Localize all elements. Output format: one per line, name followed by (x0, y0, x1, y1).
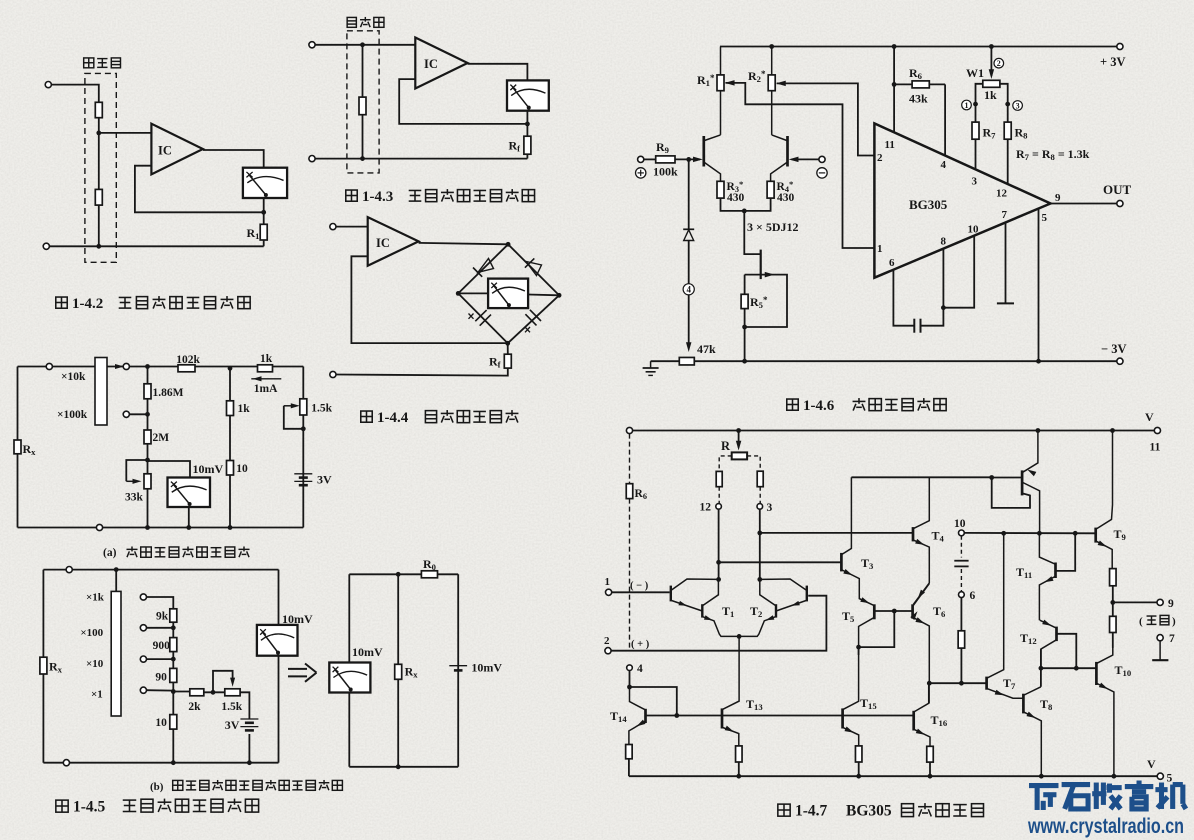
resistor divider lower (95, 189, 102, 205)
node R2 top (769, 44, 774, 49)
wire pin3 line (759, 509, 761, 579)
wire output pin9 (1051, 203, 1117, 205)
wire T5 base out (875, 610, 912, 612)
meter M (488, 279, 528, 309)
terminal -3V (1117, 358, 1123, 364)
svg-text:4: 4 (686, 285, 691, 295)
bridge top-right arm (508, 244, 559, 295)
node tail (737, 634, 742, 639)
wire outer rect right bottom (278, 656, 280, 763)
svg-text:10: 10 (236, 463, 248, 475)
figure 1-4.6 amplifier (636, 43, 1132, 375)
wire eq Rx vertical (397, 574, 399, 767)
terminal pin12 (716, 504, 722, 510)
figure 1-4.2 DC voltmeter (43, 58, 287, 262)
arrow R2 wiper (776, 81, 786, 86)
node T1 collectors (716, 577, 721, 582)
terminal pin11 V+ (1154, 427, 1160, 433)
terminal tap1 (140, 594, 146, 600)
svg-text:BG305: BG305 (846, 803, 892, 820)
svg-text:2: 2 (997, 59, 1001, 68)
wire T9 res to node (1112, 586, 1114, 603)
svg-text:4: 4 (941, 159, 947, 171)
wire 1.5k wiper loop (b) (213, 671, 233, 693)
diode D2 on top-right arm (525, 258, 542, 275)
dashed to pin12 (718, 487, 720, 504)
battery 3V (b) (240, 718, 258, 720)
node 668 net (1039, 666, 1044, 671)
node R5 bottom (742, 325, 747, 330)
terminal minus input (819, 156, 825, 162)
svg-text:430: 430 (777, 192, 795, 204)
node 2k-1.5k (211, 690, 216, 695)
wire eq rect left upper (348, 574, 350, 662)
wire pin5 (1038, 209, 1040, 362)
wire T3 base (719, 561, 841, 563)
wire R6 leads (894, 83, 912, 85)
wire divider bottom (98, 205, 100, 246)
wire eq rect bottom (349, 766, 458, 768)
svg-text:IC: IC (376, 236, 390, 250)
svg-text:( + ): ( + ) (631, 639, 650, 650)
svg-text:www.crystalradio.cn: www.crystalradio.cn (1027, 815, 1184, 838)
wire R9 to base (675, 158, 700, 160)
node T15 rail (856, 774, 861, 779)
resistor divider upper (95, 102, 102, 117)
caption glyphs 直流电流表原理图 (409, 190, 422, 201)
x mark C2 (525, 327, 530, 332)
wire eq rect right (457, 574, 459, 767)
node T2 collectors (757, 577, 762, 582)
resistor Rx (b) (40, 657, 47, 674)
node emitter join (742, 209, 747, 214)
node pin8-10 join (941, 305, 946, 310)
node tap3 (171, 657, 176, 662)
node divider tap (96, 131, 101, 136)
resistor 10 vertical (227, 461, 234, 476)
wire outer rect top (43, 569, 278, 571)
wire bottom rail 4.7 (629, 775, 1157, 777)
selector switch bar (b) (111, 591, 121, 716)
node shunt top (360, 42, 365, 47)
implies arrow (288, 664, 317, 682)
svg-text:×100: ×100 (80, 627, 103, 639)
meter M (243, 168, 287, 198)
resistor T13 emitter (736, 746, 743, 762)
node feedback junction (525, 122, 530, 127)
node R9 junction (686, 157, 691, 162)
svg-text:10mV: 10mV (193, 462, 224, 476)
resistor T14 emitter (626, 745, 633, 759)
arrow 33k wiper (126, 480, 137, 482)
wire 1.5k wiper loop (284, 406, 304, 429)
wire minus to base (792, 158, 819, 160)
wire R8 leads (1007, 104, 1009, 122)
node T5 collector (856, 645, 861, 650)
node R7 top (973, 102, 978, 107)
svg-text:(: ( (1139, 616, 1143, 628)
node bridge left (456, 291, 461, 296)
wire tap2 (147, 627, 174, 629)
circled 4 (683, 284, 694, 295)
resistor 9k (170, 609, 177, 622)
wire opamp output (203, 150, 264, 168)
svg-text:BG305: BG305 (909, 197, 948, 212)
wire T5 to T15 (858, 647, 860, 655)
FET2 emitter (771, 163, 787, 182)
node T7 top (1001, 531, 1006, 536)
capacitor comp (914, 319, 920, 333)
pin7 ground (1152, 641, 1168, 660)
circled 2 (994, 58, 1004, 68)
transistor T14 (629, 687, 646, 745)
svg-text:11: 11 (885, 139, 895, 151)
wire pin6 cap (893, 270, 914, 326)
resistor R9 (656, 156, 675, 163)
wire 2k to 1.5k (204, 691, 225, 693)
resistor T9 emitter (1110, 569, 1117, 586)
caption glyph 图 (1-4.5) (56, 800, 68, 812)
node feedback junction (261, 210, 266, 215)
transistor T11 (1039, 533, 1055, 620)
transistor T2a (760, 579, 807, 611)
FET2 collector (772, 135, 787, 141)
wire R1 wiper to pin1 (726, 83, 875, 248)
transistor T4 (913, 477, 929, 604)
wire selector stem (115, 570, 117, 592)
wire T11 base (1056, 533, 1075, 571)
svg-text:1-4.6: 1-4.6 (803, 398, 835, 414)
resistor T16 emitter (927, 746, 934, 762)
node R5 rail (742, 359, 747, 364)
caption glyphs 放大器线路图 (853, 398, 866, 410)
node T6 emitter horizontal (927, 681, 932, 686)
wire R5 box left edges (744, 275, 746, 295)
node battery bottom (247, 760, 252, 765)
svg-text:10: 10 (968, 224, 980, 236)
svg-text:5: 5 (1042, 212, 1048, 224)
node 1.5k bottom (301, 426, 306, 431)
wire emitters join (721, 198, 771, 211)
wire 9k-900 (172, 622, 174, 637)
wire pin12 line (718, 509, 720, 579)
wire 10 to rail (172, 729, 174, 763)
wire bridge bottom to Rf (507, 343, 509, 354)
svg-text:10mV: 10mV (471, 661, 502, 675)
op-amp IC (368, 217, 419, 266)
capacitor 6-10 (954, 561, 968, 567)
node pin5 rail (1036, 359, 1041, 364)
terminal top-left (46, 363, 52, 369)
wire base bus (647, 715, 914, 717)
dashed R right leg (747, 456, 760, 471)
voltage divider dashed box (85, 73, 116, 262)
svg-text:1-4.7: 1-4.7 (795, 803, 828, 820)
caption glyph 图 (1-4.2) (56, 297, 67, 308)
svg-text:8: 8 (941, 236, 947, 248)
wire tap3 (147, 658, 174, 660)
wire right edge (302, 367, 304, 528)
terminal +3V (1117, 43, 1123, 49)
svg-text:1: 1 (877, 243, 883, 255)
wire shunt (362, 45, 364, 159)
svg-text:3 × 5DJ12: 3 × 5DJ12 (747, 220, 799, 234)
terminal pin9 (1157, 599, 1163, 605)
dashed R left leg (719, 456, 732, 472)
wire outer rect bottom (43, 762, 278, 764)
node meter bottom (186, 525, 191, 530)
wire T15 res to rail (858, 762, 860, 776)
op-amp BG305 triangle (874, 123, 1050, 277)
svg-text:1-4.3: 1-4.3 (362, 189, 393, 205)
node T9 rail (1110, 428, 1115, 433)
wire input1 (612, 591, 670, 593)
terminal pin7 (1157, 635, 1163, 641)
dashed cap to pin6 (960, 569, 962, 592)
wire pin4 (944, 84, 946, 155)
transistor T2b (739, 579, 776, 636)
node R8 top (1005, 102, 1010, 107)
caption glyph 图 (1-4.3) (346, 190, 357, 201)
wire bottom rail (18, 527, 304, 529)
svg-text:47k: 47k (697, 342, 716, 356)
svg-text:(b): (b) (150, 781, 164, 793)
wire outer rect left (42, 570, 44, 763)
wire left node to meter (458, 292, 488, 294)
circled plus (636, 168, 646, 178)
svg-text:V: V (1147, 757, 1156, 771)
wire pin4 to T14 (629, 671, 631, 688)
selector switch bar (95, 358, 107, 426)
caption glyphs 低电压电阻档原理图及等效电路 (173, 780, 183, 790)
shunt dashed box (347, 31, 379, 173)
circled minus (817, 168, 827, 178)
wire eq rect left lower (348, 693, 350, 767)
wire mid tap (129, 413, 147, 415)
op-amp IC (415, 38, 467, 89)
svg-text:1.86M: 1.86M (153, 387, 184, 399)
wire eq rect top (349, 573, 458, 575)
transistor T9 (1096, 431, 1113, 569)
resistor 90 (170, 668, 177, 682)
svg-text:OUT: OUT (1103, 182, 1132, 197)
node pin12-T3 (716, 560, 721, 565)
wire W1 left lead (976, 84, 983, 104)
transistor FET1 bar (702, 136, 705, 167)
ground symbol (643, 361, 659, 375)
svg-text:2M: 2M (153, 432, 170, 444)
svg-text:− 3V: − 3V (1101, 342, 1127, 356)
svg-text:×10k: ×10k (61, 371, 86, 383)
svg-text:IC: IC (424, 57, 438, 71)
figure 1-4.5b ohmmeter low range (40, 567, 313, 766)
transistor T16 (914, 683, 930, 746)
resistor 2k (190, 689, 204, 696)
meter M (a) (168, 478, 211, 508)
wire feedback (135, 166, 264, 213)
svg-text:7: 7 (1002, 209, 1008, 221)
wire pin6 res to bus (960, 648, 962, 683)
figure 1-4.4 AC meter (330, 217, 562, 378)
wire divider lower (98, 133, 100, 190)
wire 1k-10 vertical (229, 368, 231, 527)
wire collector bus 683 (929, 682, 986, 684)
resistor Rx (14, 440, 21, 454)
resistor R0 (421, 571, 437, 578)
Tx base box (992, 478, 1030, 508)
transistor Tx mirror (1022, 431, 1040, 534)
resistor 1k horizontal (258, 365, 273, 372)
wire tap1 (147, 597, 174, 609)
wire W1 wiper (990, 47, 992, 77)
svg-text:12: 12 (700, 502, 712, 514)
pot R (732, 452, 747, 459)
wire R2 wiper to pin2 (777, 83, 875, 155)
wire tap4 (147, 689, 174, 691)
terminal input+ (309, 42, 315, 48)
svg-text:43k: 43k (909, 92, 928, 106)
transistor T12 (1040, 620, 1057, 668)
terminal input- (43, 243, 49, 249)
wire Rf to bottom (526, 154, 528, 158)
terminal pin3 (757, 504, 763, 510)
wire Tx base (992, 477, 1021, 479)
pot 33k (144, 474, 151, 489)
transistor T6 (910, 584, 929, 684)
wire input top (315, 44, 415, 46)
terminal OUT (1117, 200, 1123, 206)
pot W1 (983, 80, 1000, 87)
svg-text:6: 6 (970, 590, 976, 602)
terminal bottom (b) (63, 760, 69, 766)
wire T14 tie (630, 687, 677, 716)
pin7 T-bar (997, 302, 1014, 304)
wire top rail (18, 366, 304, 368)
caption glyph 图 (1-4.7) (778, 804, 790, 816)
R5 box (745, 272, 787, 327)
terminal pin5 (1157, 773, 1163, 779)
node shunt bottom (360, 156, 365, 161)
svg-text:×1: ×1 (91, 689, 103, 701)
transistor T7 (987, 533, 1023, 698)
node tap2 (171, 625, 176, 630)
svg-text:1-4.5: 1-4.5 (73, 799, 106, 816)
wire diode branch (688, 159, 690, 229)
resistor output lower (1110, 616, 1117, 632)
caption glyph 图 (1-4.6) (787, 399, 798, 410)
node T16 rail (928, 774, 933, 779)
node output (1110, 600, 1115, 605)
svg-text:×100k: ×100k (57, 409, 88, 421)
wire T16 res to rail (929, 762, 931, 776)
svg-text:( − ): ( − ) (630, 581, 649, 592)
svg-text:102k: 102k (176, 354, 200, 366)
wire R5 to rail (744, 327, 746, 361)
svg-text:11: 11 (1150, 442, 1161, 454)
resistor 102k (178, 365, 195, 372)
svg-text:1: 1 (965, 101, 969, 110)
terminal V+ left (626, 427, 632, 433)
resistor R4* (767, 181, 774, 198)
wire opamp output (468, 64, 528, 81)
arrow R1 wiper (725, 80, 735, 85)
wire R9 left (644, 158, 656, 160)
node divider bottom (96, 244, 101, 249)
diode D (683, 229, 694, 240)
wire 2M leads (147, 414, 149, 430)
terminal tap3 (140, 656, 146, 662)
pot 1.5k (300, 399, 307, 415)
node tap4 (171, 689, 176, 694)
diode D1 on top-left arm (473, 259, 494, 277)
wire tap4 to 2k (173, 691, 190, 693)
wire opamp output to bridge (419, 243, 509, 244)
node bottom 33k (145, 525, 150, 530)
svg-text:9k: 9k (156, 611, 169, 623)
resistor right leg (757, 471, 763, 487)
wire outer rect right top (278, 570, 280, 625)
FET1 collector (705, 135, 721, 141)
wire bottom return (336, 368, 508, 376)
wire 33k to bottom (147, 460, 149, 474)
terminal pin10 (959, 530, 965, 536)
dashed to pin3 (759, 487, 761, 504)
meter M eq (329, 663, 370, 693)
wire 90-10 (172, 682, 174, 714)
wire 1.5k to battery (240, 692, 249, 719)
wire left edge (17, 367, 19, 528)
wire cap to pin8 (921, 249, 944, 326)
transistor T5 (859, 604, 875, 647)
wire T5 diode loop (859, 611, 895, 647)
terminal input2 (605, 648, 611, 654)
wire T14 res to rail (628, 759, 630, 776)
terminal tap2 (140, 625, 146, 631)
terminal tap4 (140, 687, 146, 693)
terminal input1 (606, 589, 612, 595)
svg-text:3: 3 (1016, 101, 1020, 110)
svg-text:3: 3 (972, 176, 978, 188)
svg-text:90: 90 (155, 672, 167, 684)
caption glyph 图 (1-4.4) (361, 411, 372, 422)
wire bottom (315, 158, 527, 160)
pin labels BG305 (877, 139, 1061, 269)
caption glyphs 交流表原理图 (425, 411, 436, 423)
resistor Rx eq (395, 664, 402, 679)
terminal input bottom (330, 371, 336, 377)
wire pin6 to resistor (960, 598, 962, 631)
node R6 left (892, 82, 897, 87)
battery 3V (a) (294, 473, 312, 475)
node T5-T6 base (892, 609, 897, 614)
node T10 rail (1112, 774, 1117, 779)
divider box label 分压器 (84, 58, 94, 68)
caption glyphs 电阻测量电路原理图 (123, 800, 137, 811)
caption glyphs 直流电压表原理图 (119, 297, 132, 308)
resistor R7 (972, 122, 979, 139)
wire W1 right lead (1000, 84, 1008, 104)
svg-text:1-4.2: 1-4.2 (72, 296, 103, 312)
node 10 bottom (171, 760, 176, 765)
pot R2* (768, 47, 775, 135)
node T8 rail (1039, 774, 1044, 779)
wire 668 horizontal (1041, 667, 1096, 669)
resistor Rf (504, 354, 511, 368)
pot 1.5k (b) (225, 689, 240, 696)
svg-text:2: 2 (877, 152, 883, 164)
transistor FET2 bar (786, 136, 789, 167)
svg-text:×1k: ×1k (86, 592, 105, 604)
